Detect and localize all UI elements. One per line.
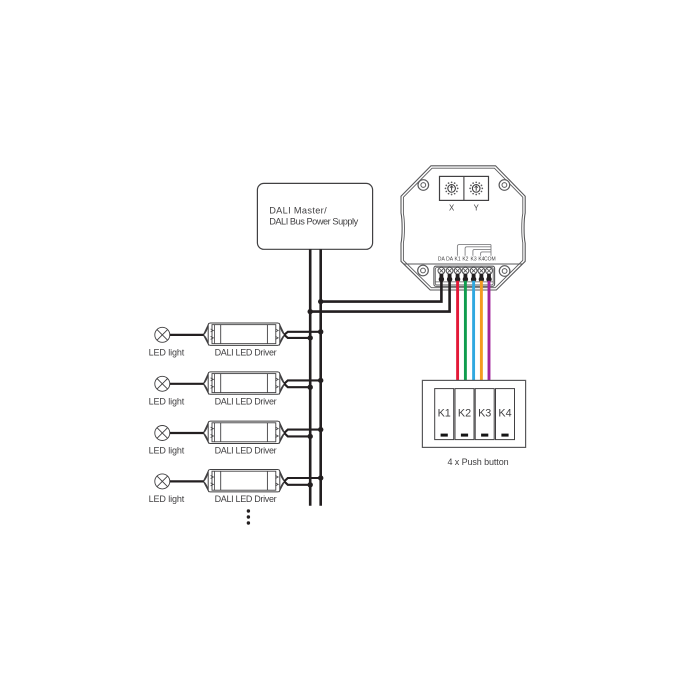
wire driver3 to bus lower [284, 433, 310, 436]
wire COM (purple) [488, 281, 491, 381]
DALI bus wire DA- (vertical) [319, 249, 322, 505]
svg-text:K2: K2 [462, 257, 468, 263]
terminal screw DA (pin 2) [446, 267, 453, 282]
screw hole top-right [499, 180, 510, 191]
rotary switch Y [469, 181, 483, 195]
wire driver2 to bus lower [284, 384, 310, 387]
svg-text:LED light: LED light [149, 348, 185, 358]
svg-text:DALI LED Driver: DALI LED Driver [215, 396, 277, 406]
svg-text:DALI Bus Power Supply: DALI Bus Power Supply [269, 216, 358, 226]
svg-text:4 x Push button: 4 x Push button [447, 457, 508, 467]
svg-text:K2: K2 [458, 407, 471, 419]
terminal strip [434, 266, 495, 286]
svg-text:DALI Master/: DALI Master/ [269, 206, 327, 216]
LED driver 4 [203, 470, 284, 492]
LED lamp 4 [155, 474, 170, 489]
svg-text:LED light: LED light [149, 494, 185, 504]
screw hole bottom-left [418, 265, 429, 276]
wire driver1 to bus lower [284, 335, 310, 338]
svg-text:K1: K1 [455, 257, 461, 263]
terminal screw DA (pin 1) [438, 267, 445, 282]
screw hole top-left [418, 180, 429, 191]
junction driver4 upper [318, 475, 323, 480]
push button K2 [455, 389, 474, 440]
junction driver3 lower [308, 434, 313, 439]
wire K3 (blue) [472, 281, 475, 381]
wire driver1 to bus upper [284, 332, 321, 335]
LED lamp 3 [155, 426, 170, 441]
wire DA terminal 2 to bus [310, 276, 449, 312]
wire lamp3-driver3 [170, 432, 204, 434]
svg-text:DALI LED Driver: DALI LED Driver [215, 494, 277, 504]
wire driver3 to bus upper [284, 430, 321, 433]
continuation ellipsis [247, 509, 250, 524]
terminal labels DA DA K1 K2 K3 K4 COM [438, 257, 496, 263]
rotary switch block [440, 176, 489, 200]
DALI Master / Bus Power Supply box [257, 183, 372, 249]
rotary switch X [445, 181, 459, 195]
svg-text:DALI LED Driver: DALI LED Driver [215, 348, 277, 358]
junction driver4 lower [308, 482, 313, 487]
terminal screw K4 (pin 6) [478, 267, 485, 282]
push button K3 [475, 389, 494, 440]
push button K1 [435, 389, 454, 440]
svg-text:LED light: LED light [149, 396, 185, 406]
junction driver1 lower [308, 335, 313, 340]
LED lamp 1 [155, 327, 170, 342]
svg-text:K1: K1 [438, 407, 451, 419]
LED driver 2 [203, 372, 284, 394]
junction bus/DA2 [308, 309, 313, 314]
LED driver 3 [203, 421, 284, 443]
wire K4 (orange) [480, 281, 483, 381]
DALI bus wire DA+ (vertical) [309, 249, 312, 505]
LED driver 1 [203, 323, 284, 345]
svg-text:DA: DA [438, 257, 446, 263]
svg-text:DA: DA [446, 257, 454, 263]
wire lamp1-driver1 [170, 334, 204, 336]
junction bus/DA1 [318, 299, 323, 304]
push button K4 [496, 389, 515, 440]
svg-text:LED light: LED light [149, 446, 185, 456]
screw hole bottom-right [499, 266, 510, 277]
terminal screw K3 (pin 5) [470, 267, 477, 282]
terminal screw K1 (pin 3) [454, 267, 461, 282]
svg-text:K4: K4 [498, 407, 511, 419]
svg-text:X: X [449, 203, 455, 212]
wire DA terminal 1 to bus [321, 276, 442, 302]
junction driver2 lower [308, 385, 313, 390]
terminal screw COM (pin 7) [486, 267, 493, 282]
wire driver4 to bus upper [284, 478, 321, 481]
controller module U1 outline [401, 166, 525, 290]
svg-text:K3: K3 [471, 257, 477, 263]
junction driver3 upper [318, 427, 323, 432]
wire K2 (green) [464, 281, 467, 381]
svg-text:COM: COM [484, 257, 496, 263]
terminal screw K2 (pin 4) [462, 267, 469, 282]
svg-text:K3: K3 [478, 407, 491, 419]
wire driver4 to bus lower [284, 481, 310, 484]
junction driver1 upper [318, 329, 323, 334]
push-button wiring icon [457, 245, 491, 256]
junction driver2 upper [318, 378, 323, 383]
LED lamp 2 [155, 376, 170, 391]
wire driver2 to bus upper [284, 380, 321, 383]
wire K1 (red) [456, 281, 459, 381]
wire lamp4-driver4 [170, 480, 204, 482]
svg-text:Y: Y [474, 203, 480, 212]
svg-text:DALI LED Driver: DALI LED Driver [215, 446, 277, 456]
module face divider line [404, 263, 523, 265]
wire lamp2-driver2 [170, 383, 204, 385]
push button panel [422, 380, 525, 447]
